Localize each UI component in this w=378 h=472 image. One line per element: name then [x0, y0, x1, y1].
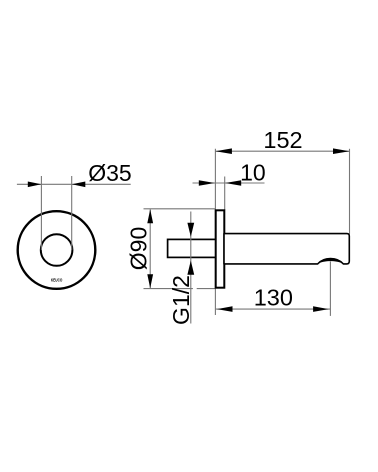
front view outer circle (wall flange Ø90) — [18, 211, 96, 289]
svg-text:G1/2: G1/2 — [168, 275, 194, 325]
dimension Ø90 down arrow — [147, 274, 153, 288]
dimension 10 left arrow (outside, pointing right) — [199, 180, 215, 186]
dimension 130 value label — [254, 284, 293, 310]
dimension 10 value label — [240, 159, 266, 185]
dimension G1/2 upper arrow (pointing down) — [187, 223, 194, 237]
dimension 152 left arrow — [215, 148, 232, 154]
front view inner circle (spout Ø35) — [41, 234, 73, 266]
dimension Ø35 right arrow — [72, 182, 86, 188]
flange front face extension line (right end of 10) — [224, 177, 226, 210]
svg-text:Ø90: Ø90 — [126, 227, 152, 270]
dimension G1/2 value label (rotated) — [168, 275, 194, 325]
dimension Ø35 extension line left (tangent to inner circle) — [40, 176, 42, 250]
dimension G1/2 lower arrow (pointing up) — [187, 261, 194, 275]
dimension Ø35 dimension line — [17, 183, 131, 185]
spout outlet extension line (right end of 130) — [329, 262, 331, 316]
spout outlet lip (thick arc) — [317, 258, 343, 264]
dimension Ø90 up arrow — [147, 209, 153, 223]
svg-text:130: 130 — [254, 284, 293, 310]
svg-text:Ø35: Ø35 — [88, 160, 131, 186]
dimension Ø90 dimension line — [149, 210, 151, 289]
dimension Ø90 top extension line — [144, 208, 216, 210]
svg-text:10: 10 — [240, 159, 266, 185]
dimension 152 value label — [263, 127, 302, 153]
dimension Ø35 extension line right (tangent to inner circle) — [71, 176, 73, 250]
dimension 130 dimension line — [215, 308, 330, 310]
dimension 152 right arrow — [333, 148, 350, 154]
spout tip extension line (right end of 152) — [349, 149, 351, 234]
dimension 10 right arrow (outside, pointing left) — [225, 180, 241, 186]
svg-text:KEUCO: KEUCO — [51, 277, 63, 283]
wall flange (side view) — [216, 210, 225, 287]
dimension 130 left arrow — [217, 306, 233, 312]
spout body (side view) — [224, 234, 349, 264]
KEUCO logo text — [51, 277, 63, 283]
dimension Ø35 value label — [88, 160, 131, 186]
dimension 130 right arrow — [313, 306, 329, 312]
inlet nipple G1/2 (threaded connector) — [168, 239, 217, 257]
dimension Ø90 value label (rotated) — [126, 227, 152, 270]
dimension 152 dimension line — [215, 150, 349, 152]
svg-text:152: 152 — [263, 127, 302, 153]
dimension Ø90 bottom extension line — [144, 288, 216, 290]
wall plane extension line (left end of 152 and 130) — [214, 149, 216, 315]
dimension G1/2 dimension line — [190, 212, 192, 324]
dimension 10 dimension line — [193, 182, 265, 184]
dimension Ø35 left arrow — [28, 182, 42, 188]
